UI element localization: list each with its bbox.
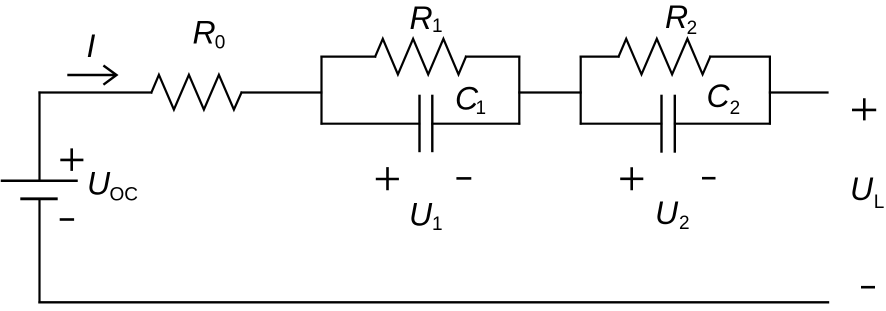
svg-text:U: U bbox=[409, 197, 433, 233]
svg-text:R: R bbox=[410, 0, 433, 36]
svg-text:1: 1 bbox=[432, 214, 443, 235]
svg-text:OC: OC bbox=[110, 184, 139, 205]
svg-text:2: 2 bbox=[687, 18, 698, 39]
svg-text:U: U bbox=[655, 195, 679, 231]
svg-text:R: R bbox=[665, 0, 688, 35]
svg-text:0: 0 bbox=[215, 33, 226, 54]
svg-text:1: 1 bbox=[432, 16, 443, 37]
svg-text:R: R bbox=[193, 15, 216, 51]
svg-text:U: U bbox=[850, 171, 874, 207]
svg-text:2: 2 bbox=[679, 213, 690, 234]
svg-text:U: U bbox=[87, 166, 111, 202]
svg-text:I: I bbox=[87, 28, 96, 64]
svg-text:2: 2 bbox=[730, 98, 741, 119]
svg-text:L: L bbox=[874, 192, 885, 213]
svg-text:1: 1 bbox=[476, 98, 487, 119]
svg-text:C: C bbox=[707, 78, 731, 114]
